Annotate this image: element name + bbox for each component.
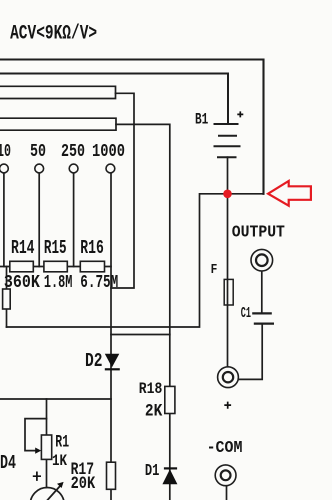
svg-text:10: 10	[0, 140, 11, 162]
svg-text:R15: R15	[44, 237, 67, 259]
resistor R18	[165, 386, 175, 413]
wire R1 wiper bypass	[25, 419, 47, 451]
red annotation arrow	[268, 181, 311, 206]
wiper arrowhead into R1	[35, 448, 41, 454]
svg-text:R1: R1	[55, 432, 69, 452]
meter M	[30, 488, 64, 500]
terminal 250	[69, 164, 78, 173]
diode D2	[105, 354, 120, 368]
svg-text:R16: R16	[80, 237, 104, 259]
battery plus sign	[237, 111, 243, 117]
wire terminal 250 drop	[73, 173, 75, 267]
svg-text:250: 250	[61, 140, 85, 162]
wire top fork pair	[0, 86, 116, 98]
resistor R17	[107, 462, 116, 489]
wire bottom fork pair	[0, 118, 116, 130]
wire terminal 1000 long vertical down through D2, R17	[110, 173, 112, 500]
jack OUTPUT	[251, 249, 273, 271]
svg-text:R18: R18	[139, 381, 163, 399]
resistor R16	[80, 261, 104, 272]
wire battery bottom to node	[227, 157, 229, 194]
terminal 10	[0, 164, 8, 173]
wire left column through left box	[6, 267, 8, 328]
svg-text:20K: 20K	[71, 474, 96, 494]
svg-text:2K: 2K	[145, 401, 163, 420]
svg-text:1K: 1K	[52, 453, 67, 471]
node red dot	[223, 190, 232, 199]
svg-text:1.8M: 1.8M	[44, 272, 73, 293]
svg-text:1000: 1000	[92, 140, 125, 162]
terminal 50	[35, 164, 44, 173]
wire node down through fuse to + jack	[227, 194, 229, 366]
svg-text:F: F	[211, 261, 218, 278]
svg-text:50: 50	[30, 140, 46, 162]
wire short link D2 column to R18 column	[111, 334, 170, 336]
diode D1	[162, 469, 177, 484]
wire R18 to D1 to bottom	[169, 414, 171, 500]
resistor R15	[44, 261, 67, 272]
wire top bus line 1 (to right vertical down to node)	[0, 60, 264, 194]
wire node horizontal and left branch down to y327	[7, 194, 264, 327]
wire terminal 10 drop	[3, 173, 5, 267]
jack COM	[215, 465, 236, 486]
svg-text:OUTPUT: OUTPUT	[232, 223, 286, 242]
svg-text:B1: B1	[195, 112, 208, 129]
wire terminal 50 drop	[38, 173, 40, 267]
svg-text:360K: 360K	[4, 271, 40, 292]
meter needle	[44, 486, 61, 500]
svg-text:R14: R14	[11, 237, 35, 259]
capacitor C1	[252, 313, 274, 323]
jack plus	[218, 367, 239, 388]
resistor left edge (cut)	[3, 289, 11, 309]
resistor R14	[10, 261, 34, 272]
wire C1 down and left to + jack	[239, 324, 262, 380]
battery B1	[214, 124, 241, 157]
wire COM jack to bottom	[226, 486, 228, 500]
svg-text:D1: D1	[145, 462, 160, 480]
svg-text:D2: D2	[85, 351, 103, 372]
wire resistor row	[0, 266, 111, 268]
svg-text:6.75M: 6.75M	[80, 272, 118, 293]
plus sign under + jack	[224, 402, 231, 409]
svg-text:ACV<9KΩ/V>: ACV<9KΩ/V>	[10, 22, 97, 45]
terminal 1000	[106, 164, 115, 173]
plus sign near meter	[33, 472, 41, 481]
svg-text:C1: C1	[241, 306, 251, 323]
wire from bottom fork down right column to R18	[116, 124, 170, 386]
fuse F	[224, 279, 233, 305]
resistor R1	[41, 435, 51, 459]
wire junction down to R1 and meter	[46, 399, 48, 488]
wire bus line 2 to battery +	[0, 74, 228, 125]
svg-text:-COM: -COM	[207, 438, 243, 457]
wire bottom horizontal y399	[0, 398, 111, 400]
wire from top fork to vertical x132.5 down to R16 join	[111, 93, 134, 288]
svg-text:D4: D4	[0, 452, 16, 474]
wire OUTPUT jack to C1	[261, 271, 263, 313]
